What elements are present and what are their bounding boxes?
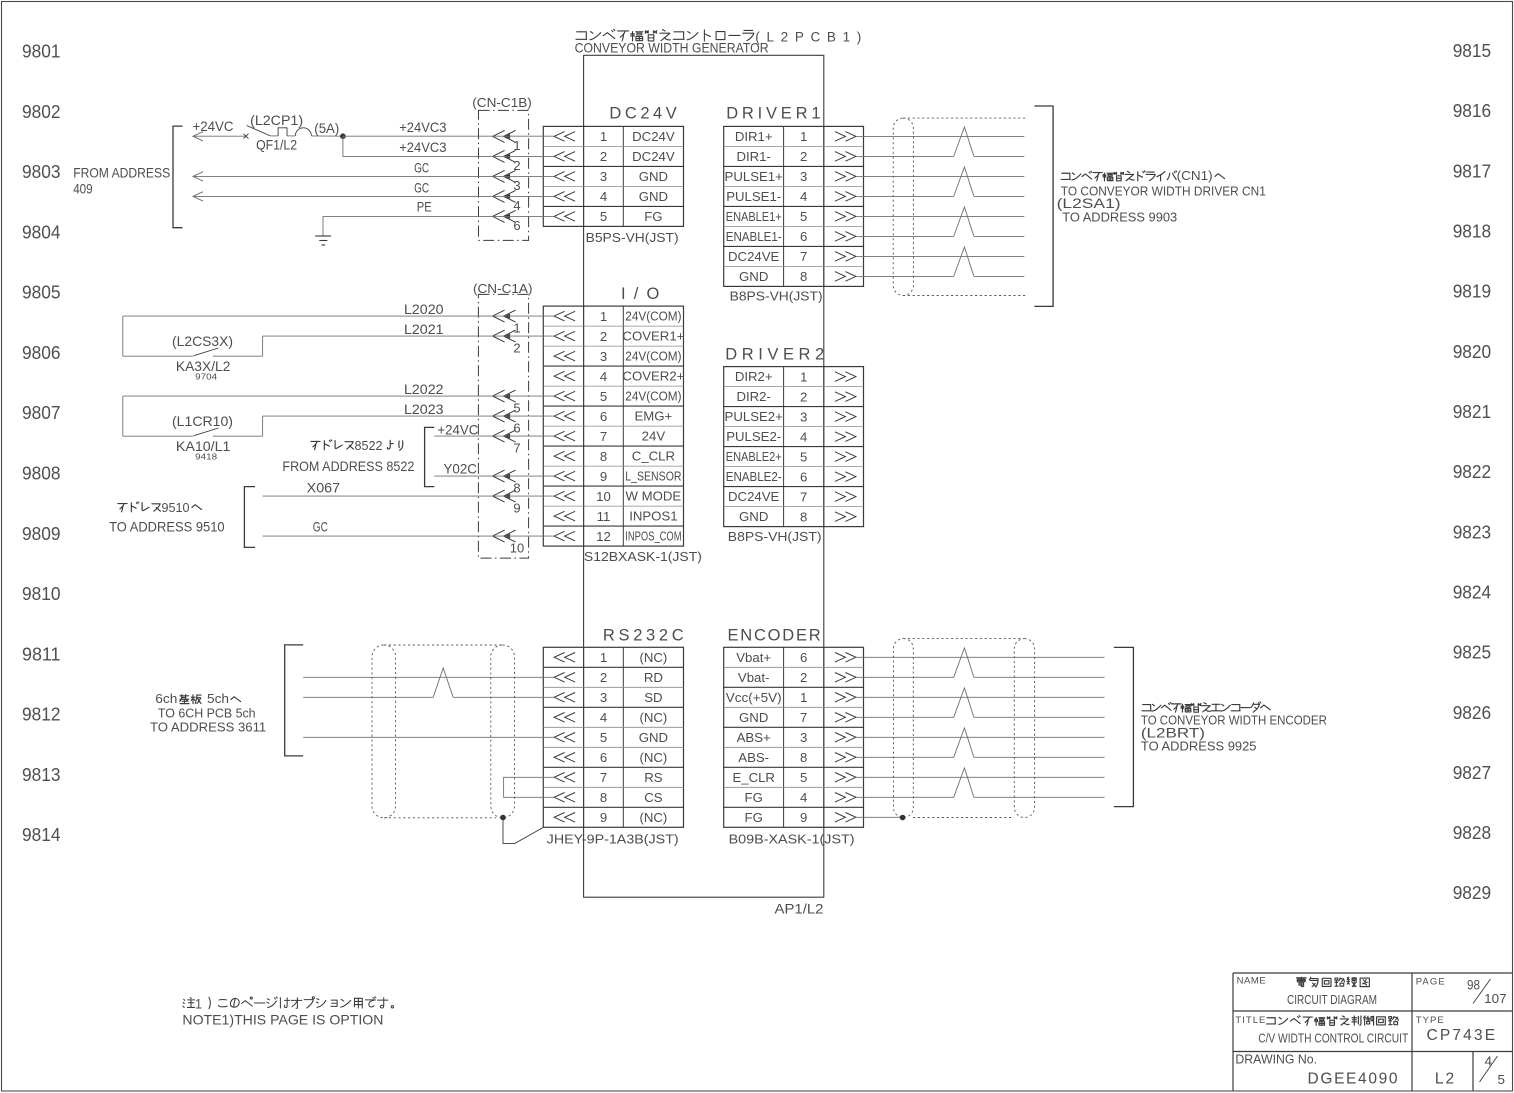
svg-text:12: 12 <box>596 529 611 544</box>
connector table RS232C (JHEY-9P) <box>543 647 683 827</box>
svg-text:+24VC3: +24VC3 <box>399 140 447 155</box>
label address-8522 japanese <box>311 441 320 449</box>
wire DRIVER1 PULSE1+ <box>856 175 1024 177</box>
svg-text:+24VC3: +24VC3 <box>399 120 447 135</box>
CN-C1A pin 2 arrow <box>493 330 516 342</box>
svg-text:3: 3 <box>600 690 607 705</box>
ground symbol (PE) <box>322 216 324 236</box>
svg-text:3: 3 <box>800 730 807 745</box>
svg-text:CP743E: CP743E <box>1427 1027 1496 1044</box>
svg-text:9814: 9814 <box>22 825 61 845</box>
svg-text:DC24VE: DC24VE <box>728 249 780 264</box>
titleblock japanese: c/v width control circuit <box>1267 1018 1276 1024</box>
svg-text:DRAWING No.: DRAWING No. <box>1235 1052 1317 1067</box>
svg-text:FG: FG <box>745 790 763 805</box>
svg-text:9806: 9806 <box>22 343 61 363</box>
svg-text:6ch: 6ch <box>155 691 177 706</box>
svg-text:8: 8 <box>800 750 807 765</box>
relay contact KA10/L1 (L1CR10) loop <box>122 396 124 436</box>
svg-text:9802: 9802 <box>22 102 61 122</box>
svg-text:7: 7 <box>800 489 807 504</box>
svg-text:INPOS_COM: INPOS_COM <box>625 529 681 544</box>
svg-text:(CN1): (CN1) <box>1177 168 1213 183</box>
wire ENCODER GND <box>856 716 954 718</box>
svg-text:COVER1+: COVER1+ <box>622 329 684 344</box>
svg-text:ENABLE1+: ENABLE1+ <box>726 209 782 224</box>
svg-text:8: 8 <box>600 790 607 805</box>
note: to conveyor width driver (CN1) japanese <box>1061 173 1070 179</box>
svg-text:5: 5 <box>513 401 520 416</box>
wire ENCODER E_CLR <box>856 776 1105 778</box>
svg-text:9: 9 <box>600 469 607 484</box>
svg-text:TO ADDRESS 9903: TO ADDRESS 9903 <box>1062 210 1177 225</box>
svg-text:6: 6 <box>800 650 807 665</box>
wire DRIVER1 DC24VE <box>856 255 1024 257</box>
svg-text:10: 10 <box>510 541 524 556</box>
svg-text:4: 4 <box>800 790 807 805</box>
svg-text:9816: 9816 <box>1453 101 1492 121</box>
svg-text:Y02C: Y02C <box>444 462 477 477</box>
svg-text:ENABLE2-: ENABLE2- <box>726 469 782 484</box>
bracket TO ADDRESS 9510 <box>244 487 255 548</box>
svg-text:1: 1 <box>800 129 807 144</box>
svg-text:5: 5 <box>600 730 607 745</box>
svg-text:DGEE4090: DGEE4090 <box>1308 1071 1398 1088</box>
svg-text:9820: 9820 <box>1453 342 1492 362</box>
svg-text:9: 9 <box>600 810 607 825</box>
svg-text:1: 1 <box>800 690 807 705</box>
wire DRIVER1 DIR1+ <box>856 135 1024 137</box>
CN-C1B pin 1 arrow <box>493 130 516 142</box>
svg-text:+24VC: +24VC <box>437 422 478 437</box>
CN-C1A pin 9 arrow <box>493 490 516 502</box>
svg-text:CS: CS <box>644 790 663 805</box>
svg-text:+24VC: +24VC <box>193 119 234 134</box>
svg-text:1: 1 <box>600 309 607 324</box>
svg-text:11: 11 <box>597 509 611 524</box>
bracket FROM ADDRESS 409 <box>173 126 183 228</box>
svg-text:GND: GND <box>639 189 668 204</box>
svg-text:TO ADDRESS 3611: TO ADDRESS 3611 <box>150 720 266 735</box>
twisted pair symbol <box>954 728 974 757</box>
svg-text:6: 6 <box>513 421 520 436</box>
svg-text:9821: 9821 <box>1453 402 1492 422</box>
svg-text:L2023: L2023 <box>404 402 444 417</box>
svg-text:GND: GND <box>639 169 668 184</box>
svg-text:9809: 9809 <box>22 524 61 544</box>
svg-text:6: 6 <box>800 229 807 244</box>
CN-C1A pin 7 arrow <box>493 430 516 442</box>
svg-text:1: 1 <box>513 321 520 336</box>
svg-text:9807: 9807 <box>22 403 61 423</box>
wire ENCODER Vcc(+5V) <box>856 696 1105 698</box>
svg-text:B5PS-VH(JST): B5PS-VH(JST) <box>586 230 679 245</box>
svg-text:8522: 8522 <box>355 438 383 453</box>
title japanese: conveyor width controller (L2PCB1) <box>576 32 587 39</box>
svg-text:GND: GND <box>739 710 768 725</box>
controller board outline box AP1/L2 <box>584 55 824 897</box>
CN-C1B pin 4 arrow <box>493 190 516 202</box>
wire DRIVER1 GND <box>856 275 954 277</box>
svg-text:3: 3 <box>600 349 607 364</box>
svg-text:7: 7 <box>513 441 520 456</box>
bracket to conveyor width encoder <box>1114 647 1134 806</box>
svg-text:DIR2+: DIR2+ <box>735 369 773 384</box>
svg-text:NAME: NAME <box>1237 975 1266 986</box>
svg-text:9829: 9829 <box>1453 883 1492 903</box>
svg-text:9: 9 <box>800 810 807 825</box>
connector table DRIVER2 (B8PS-VH) <box>724 367 864 527</box>
CN-C1B pin 3 arrow <box>493 170 516 182</box>
CN-C1A pin 1 arrow <box>493 310 516 322</box>
connector CN-C1A (dash-dot outline) <box>478 294 528 558</box>
svg-text:9418: 9418 <box>195 452 217 462</box>
note-1 japanese: this page is option <box>183 998 195 1008</box>
leader line to JHEY label <box>503 818 543 844</box>
svg-text:2: 2 <box>600 149 607 164</box>
svg-text:9801: 9801 <box>22 42 61 62</box>
svg-text:(NC): (NC) <box>639 710 667 725</box>
svg-text:GND: GND <box>639 730 668 745</box>
svg-text:GND: GND <box>739 509 768 524</box>
CN-C1A pin 5 arrow <box>493 390 516 402</box>
junction dot node +24VC3 <box>340 133 346 139</box>
svg-text:Vcc(+5V): Vcc(+5V) <box>726 690 782 705</box>
wire GND to RS232C pin 5 <box>303 736 554 738</box>
svg-text:JHEY-9P-1A3B(JST): JHEY-9P-1A3B(JST) <box>547 832 679 847</box>
svg-text:9803: 9803 <box>22 162 61 182</box>
svg-text:24V(COM): 24V(COM) <box>625 389 681 404</box>
svg-text:INPOS1: INPOS1 <box>629 509 677 524</box>
svg-text:4: 4 <box>600 710 607 725</box>
wire ENCODER Vbat+ <box>856 656 1105 658</box>
svg-text:DC24V: DC24V <box>609 105 676 123</box>
svg-text:9810: 9810 <box>22 584 61 604</box>
svg-text:1: 1 <box>600 650 607 665</box>
svg-text:(L2CP1): (L2CP1) <box>250 113 303 128</box>
svg-text:9817: 9817 <box>1453 161 1492 181</box>
svg-text:2: 2 <box>800 389 807 404</box>
wire ENCODER FG-shield <box>856 816 900 818</box>
twisted pair symbol <box>433 668 453 697</box>
svg-text:(CN-C1B): (CN-C1B) <box>472 95 532 110</box>
wire DRIVER1 DIR1- <box>856 155 954 157</box>
svg-text:5: 5 <box>800 770 807 785</box>
svg-text:FG: FG <box>745 810 763 825</box>
svg-text:DIR1+: DIR1+ <box>735 129 773 144</box>
svg-text:2: 2 <box>600 670 607 685</box>
svg-text:TO 6CH PCB 5ch: TO 6CH PCB 5ch <box>158 706 256 721</box>
svg-text:(L2CS3X): (L2CS3X) <box>172 334 233 349</box>
svg-text:6: 6 <box>800 469 807 484</box>
twisted pair symbol <box>954 768 974 797</box>
svg-text:CIRCUIT DIAGRAM: CIRCUIT DIAGRAM <box>1287 992 1377 1007</box>
twisted pair symbol <box>954 247 974 276</box>
label address-9510 japanese <box>118 504 127 512</box>
svg-text:9822: 9822 <box>1453 462 1492 482</box>
svg-text:9826: 9826 <box>1453 703 1492 723</box>
twisted pair symbol <box>954 648 974 677</box>
wire ENCODER ABS+ <box>856 736 1105 738</box>
connector CN-C1B (dash-dot outline) <box>479 110 529 240</box>
shield ground dot ENCODER <box>900 815 906 821</box>
wire L2021 to I/O pin 2 <box>263 335 554 337</box>
svg-text:98: 98 <box>1467 978 1480 993</box>
svg-text:9818: 9818 <box>1453 222 1492 242</box>
svg-text:9805: 9805 <box>22 283 61 303</box>
svg-text:9813: 9813 <box>22 765 61 785</box>
svg-text:2: 2 <box>800 670 807 685</box>
wire DRIVER1 PULSE1- <box>856 195 954 197</box>
svg-text:9824: 9824 <box>1453 583 1492 603</box>
wire X067 to I/O pin 10 <box>263 495 554 497</box>
svg-text:X067: X067 <box>307 481 340 496</box>
svg-text:10: 10 <box>596 489 611 504</box>
svg-text:409: 409 <box>73 181 93 196</box>
connector table ENCODER (B09B-XASK-1) <box>724 647 864 827</box>
svg-text:5: 5 <box>800 449 807 464</box>
svg-text:DIR2-: DIR2- <box>736 389 770 404</box>
svg-text:FG: FG <box>644 209 662 224</box>
bracket to conveyor width driver <box>1034 106 1053 306</box>
svg-text:3: 3 <box>800 409 807 424</box>
CN-C1B pin 2 arrow <box>493 150 516 162</box>
svg-text:(L1CR10): (L1CR10) <box>172 414 233 429</box>
svg-text:9828: 9828 <box>1453 823 1492 843</box>
CN-C1A pin 6 arrow <box>493 410 516 422</box>
svg-text:9808: 9808 <box>22 464 61 484</box>
svg-text:DC24VE: DC24VE <box>728 489 780 504</box>
svg-text:ENABLE1-: ENABLE1- <box>726 229 782 244</box>
svg-text:ABS+: ABS+ <box>737 730 771 745</box>
svg-text:4: 4 <box>800 429 807 444</box>
svg-text:PAGE: PAGE <box>1416 976 1445 987</box>
wire DRIVER1 ENABLE1- <box>856 235 954 237</box>
svg-text:1: 1 <box>800 369 807 384</box>
svg-text:9: 9 <box>513 501 520 516</box>
svg-text:B8PS-VH(JST): B8PS-VH(JST) <box>728 529 822 544</box>
svg-text:COVER2+: COVER2+ <box>622 369 684 384</box>
svg-text:L2021: L2021 <box>404 322 444 337</box>
wire SD to RS232C pin 3 with twist <box>303 696 433 698</box>
svg-text:9819: 9819 <box>1453 282 1492 302</box>
svg-text:1: 1 <box>195 997 202 1012</box>
svg-text:AP1/L2: AP1/L2 <box>775 902 824 917</box>
svg-text:107: 107 <box>1484 991 1507 1006</box>
svg-text:9704: 9704 <box>195 372 217 382</box>
wire +24VC3 to DC24V pin 1 <box>343 135 554 137</box>
svg-text:5: 5 <box>1498 1072 1506 1087</box>
svg-text:6: 6 <box>600 750 607 765</box>
svg-text:PULSE2+: PULSE2+ <box>725 409 784 424</box>
svg-text:NOTE1)THIS PAGE IS OPTION: NOTE1)THIS PAGE IS OPTION <box>182 1013 383 1028</box>
svg-text:4: 4 <box>600 369 607 384</box>
svg-text:9510: 9510 <box>162 500 190 515</box>
svg-text:4: 4 <box>600 189 607 204</box>
connector table I/O (S12BXASK-1) <box>543 306 683 546</box>
svg-text:FROM ADDRESS 8522: FROM ADDRESS 8522 <box>282 459 414 474</box>
svg-text:24V: 24V <box>642 429 666 444</box>
svg-text:5: 5 <box>800 209 807 224</box>
bracket TO 6CH PCB 5ch <box>285 645 304 756</box>
svg-text:9804: 9804 <box>22 222 61 242</box>
svg-text:GC: GC <box>414 161 429 176</box>
wire L2022 to I/O pin 5 <box>123 395 554 397</box>
wire ENCODER FG <box>856 796 954 798</box>
shield ground dot RS232C <box>500 815 506 821</box>
cable shield DRIVER1 (dashed) <box>893 118 913 295</box>
svg-text:GC: GC <box>414 181 429 196</box>
svg-text:(5A): (5A) <box>314 121 339 136</box>
svg-text:PE: PE <box>417 200 432 215</box>
svg-text:Vbat-: Vbat- <box>738 670 770 685</box>
svg-text:8: 8 <box>513 481 520 496</box>
connector table DRIVER1 (B8PS-VH) <box>724 126 864 286</box>
svg-text:L2020: L2020 <box>404 302 444 317</box>
CN-C1B pin 6 arrow <box>493 210 516 222</box>
wire ENCODER ABS- <box>856 756 954 758</box>
svg-text:7: 7 <box>600 429 607 444</box>
svg-text:TYPE: TYPE <box>1416 1015 1444 1026</box>
svg-text:EMG+: EMG+ <box>635 409 673 424</box>
svg-text:8: 8 <box>800 269 807 284</box>
svg-text:1: 1 <box>600 129 607 144</box>
svg-text:2: 2 <box>513 341 520 356</box>
CN-C1A pin 8 arrow <box>493 470 516 482</box>
svg-text:9825: 9825 <box>1453 643 1492 663</box>
svg-text:FROM ADDRESS: FROM ADDRESS <box>73 166 170 181</box>
svg-text:RD: RD <box>644 670 663 685</box>
cable shield ENCODER (dashed) <box>894 639 914 818</box>
svg-text:2: 2 <box>600 329 607 344</box>
svg-text:9827: 9827 <box>1453 763 1492 783</box>
svg-text:DC24V: DC24V <box>632 149 675 164</box>
wire Y02C to I/O pin 9 <box>434 475 554 477</box>
wire L2020 to I/O pin 1 <box>123 315 554 317</box>
svg-text:4: 4 <box>800 189 807 204</box>
CN-C1A pin 10 arrow <box>493 530 516 542</box>
circuit breaker QF1/L2 (L2CP1) 5A <box>244 134 249 139</box>
svg-text:(NC): (NC) <box>639 810 667 825</box>
svg-text:QF1/L2: QF1/L2 <box>256 138 297 153</box>
svg-text:9815: 9815 <box>1453 41 1492 61</box>
svg-text:TITLE: TITLE <box>1235 1015 1265 1026</box>
cable shield RS232C (dashed) <box>372 645 396 818</box>
wire +24VC to I/O pin 7 <box>434 435 554 437</box>
wire L2023 to I/O pin 6 <box>263 415 554 417</box>
svg-text:2: 2 <box>800 149 807 164</box>
wire PE to DC24V pin 5 <box>323 215 554 217</box>
svg-text:DC24V: DC24V <box>632 129 675 144</box>
relay contact KA3X/L2 (L2CS3X) loop <box>122 316 124 356</box>
wire ENCODER Vbat- <box>856 676 954 678</box>
svg-text:TO ADDRESS 9925: TO ADDRESS 9925 <box>1141 739 1257 754</box>
svg-text:(CN-C1A): (CN-C1A) <box>473 281 533 296</box>
svg-text:B09B-XASK-1(JST): B09B-XASK-1(JST) <box>729 832 855 847</box>
svg-text:6: 6 <box>513 218 520 233</box>
svg-text:8: 8 <box>600 449 607 464</box>
svg-text:GND: GND <box>739 269 768 284</box>
twisted pair symbol <box>954 167 974 196</box>
wire GC to DC24V pin 4 with left arrow <box>193 192 203 201</box>
svg-text:TO ADDRESS 9510: TO ADDRESS 9510 <box>109 520 225 535</box>
svg-text:3: 3 <box>600 169 607 184</box>
svg-text:ENCODER: ENCODER <box>728 626 821 644</box>
svg-text:ENABLE2+: ENABLE2+ <box>726 449 782 464</box>
svg-text:9811: 9811 <box>22 644 61 664</box>
title block frame <box>1233 972 1513 974</box>
wire +24VC with left arrow <box>193 132 203 141</box>
svg-text:E_CLR: E_CLR <box>732 770 775 785</box>
svg-text:5: 5 <box>600 389 607 404</box>
svg-text:9812: 9812 <box>22 705 61 725</box>
svg-text:SD: SD <box>644 690 662 705</box>
svg-text:ABS-: ABS- <box>738 750 769 765</box>
svg-text:6: 6 <box>600 409 607 424</box>
svg-text:7: 7 <box>800 710 807 725</box>
wire RD to RS232C pin 2 <box>303 676 554 678</box>
svg-text:C/V WIDTH CONTROL CIRCUIT: C/V WIDTH CONTROL CIRCUIT <box>1258 1031 1408 1046</box>
svg-text:S12BXASK-1(JST): S12BXASK-1(JST) <box>584 549 702 564</box>
twisted pair symbol <box>954 127 974 156</box>
titleblock japanese: circuit diagram <box>1296 977 1306 986</box>
svg-text:(NC): (NC) <box>639 750 667 765</box>
svg-text:(NC): (NC) <box>639 650 667 665</box>
note: to conveyor width encoder japanese <box>1142 705 1151 711</box>
svg-text:Vbat+: Vbat+ <box>736 650 771 665</box>
svg-text:3: 3 <box>800 169 807 184</box>
twisted pair symbol <box>954 688 974 717</box>
svg-text:9823: 9823 <box>1453 522 1492 542</box>
svg-text:5: 5 <box>600 209 607 224</box>
connector table DC24V (B5PS-VH) <box>543 126 683 226</box>
twisted pair symbol <box>954 207 974 236</box>
wire DRIVER1 ENABLE1+ <box>856 215 1024 217</box>
svg-text:L2022: L2022 <box>404 382 444 397</box>
svg-text:L_SENSOR: L_SENSOR <box>625 469 681 484</box>
svg-text:W MODE: W MODE <box>626 489 682 504</box>
wire GC to DC24V pin 3 with left arrow <box>193 172 203 181</box>
svg-text:DIR1-: DIR1- <box>736 149 770 164</box>
svg-text:24V(COM): 24V(COM) <box>625 349 681 364</box>
svg-text:PULSE1-: PULSE1- <box>726 189 781 204</box>
svg-text:GC: GC <box>313 520 328 535</box>
jumper RS-CS (pins 7-8) <box>504 777 554 797</box>
svg-text:PULSE1+: PULSE1+ <box>725 169 784 184</box>
wire GC to I/O pin 12 <box>263 535 554 537</box>
wire +24VC3 branch to DC24V pin 2 <box>343 136 554 156</box>
svg-text:RS: RS <box>644 770 663 785</box>
svg-text:5ch: 5ch <box>207 691 229 706</box>
svg-text:PULSE2-: PULSE2- <box>726 429 781 444</box>
svg-text:C_CLR: C_CLR <box>632 449 675 464</box>
svg-text:L2: L2 <box>1435 1071 1454 1088</box>
svg-text:CONVEYOR WIDTH GENERATOR: CONVEYOR WIDTH GENERATOR <box>575 41 769 56</box>
bracket FROM ADDRESS 8522 <box>425 427 435 486</box>
svg-text:7: 7 <box>600 770 607 785</box>
svg-text:B8PS-VH(JST): B8PS-VH(JST) <box>730 289 823 304</box>
svg-text:8: 8 <box>800 509 807 524</box>
svg-text:7: 7 <box>800 249 807 264</box>
svg-text:24V(COM): 24V(COM) <box>625 309 681 324</box>
